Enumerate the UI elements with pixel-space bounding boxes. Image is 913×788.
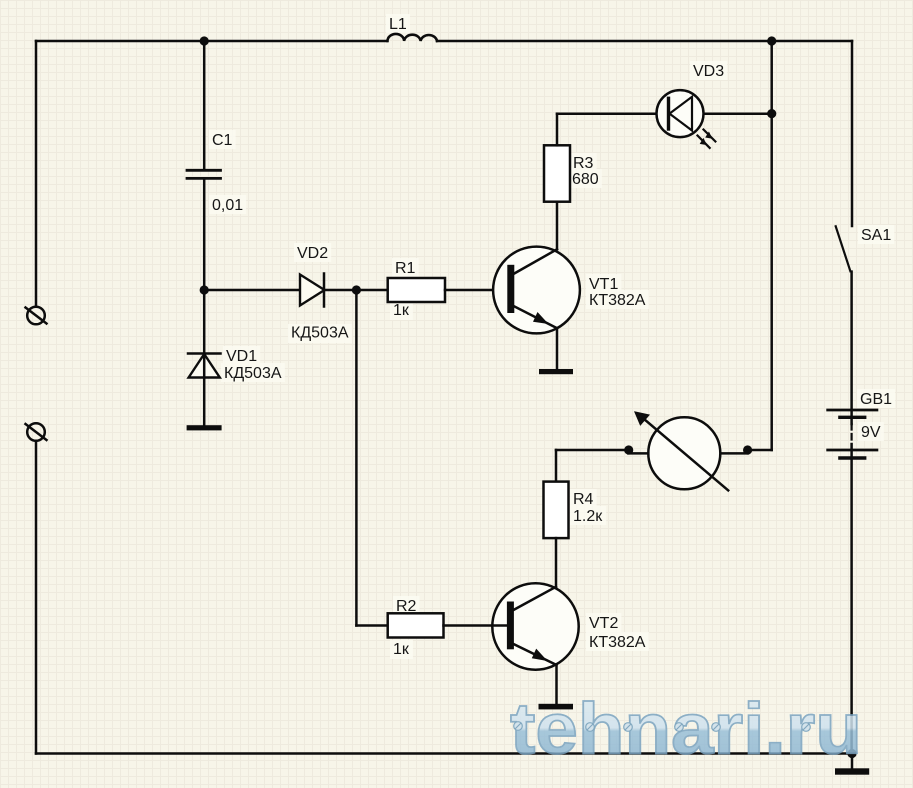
svg-text:R1: R1 (395, 260, 416, 277)
svg-text:VT1: VT1 (589, 276, 618, 293)
svg-text:SA1: SA1 (861, 227, 891, 244)
svg-text:КТ382А: КТ382А (589, 634, 646, 651)
svg-text:КД503А: КД503А (291, 325, 349, 342)
svg-text:R4: R4 (573, 491, 594, 508)
svg-text:C1: C1 (212, 132, 233, 149)
svg-text:R2: R2 (396, 598, 417, 615)
svg-text:VD2: VD2 (297, 245, 328, 262)
svg-text:0,01: 0,01 (212, 197, 243, 214)
svg-text:1к: 1к (393, 302, 410, 319)
svg-text:1.2к: 1.2к (573, 508, 603, 525)
svg-text:КД503А: КД503А (224, 365, 282, 382)
svg-text:9V: 9V (861, 424, 881, 441)
svg-text:1к: 1к (393, 641, 410, 658)
svg-text:GB1: GB1 (860, 391, 892, 408)
svg-text:R3: R3 (573, 155, 594, 172)
svg-text:КТ382А: КТ382А (589, 292, 646, 309)
svg-text:VD1: VD1 (226, 348, 257, 365)
svg-text:680: 680 (572, 171, 599, 188)
svg-text:L1: L1 (389, 16, 407, 33)
svg-text:VD3: VD3 (693, 63, 724, 80)
svg-text:VT2: VT2 (589, 615, 618, 632)
